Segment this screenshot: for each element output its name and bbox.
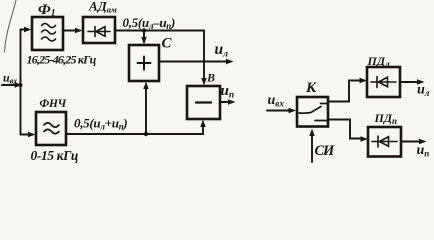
stray scan curve (5, 0, 17, 52)
wire FNCh output bottom bus (66, 133, 203, 135)
svg-text:СИ: СИ (315, 143, 335, 159)
F1 tilde symbols (42, 24, 56, 28)
subtractor B box (187, 86, 220, 119)
filter F1 box (32, 17, 63, 50)
wire u_l output (right diagram) (400, 81, 419, 83)
svg-text:С: С (162, 36, 173, 52)
PD_p diode symbol (372, 141, 397, 143)
FNCh tilde symbols (44, 123, 59, 127)
wire branch up into summer C bottom (145, 87, 147, 134)
svg-text:В: В (206, 71, 215, 85)
amplitude detector AD_am box (83, 17, 115, 43)
PD_l diode symbol (371, 81, 396, 83)
wire SI input arrow (311, 134, 313, 162)
node u_bx input label (right) (268, 93, 285, 109)
svg-text:ФНЧ: ФНЧ (40, 98, 67, 110)
peak detector PD_p box (368, 127, 401, 157)
summer C box (129, 45, 159, 81)
value label FNCh band (31, 148, 78, 163)
wire u_p output (left diagram) (220, 101, 230, 103)
wire K to PD_l (328, 81, 361, 102)
wire vertical branch (21, 30, 27, 135)
wire input arrow (left) (2, 84, 16, 86)
wire AD output to right (115, 30, 204, 32)
K switch symbol (299, 107, 321, 114)
svg-text:0-15 кГц: 0-15 кГц (31, 148, 78, 163)
wire u_p output (right diagram) (401, 141, 421, 143)
wire corner up into subtractor B bottom (202, 125, 204, 134)
commutator K box (297, 97, 328, 127)
plus sign (138, 62, 151, 64)
node junction bottom (144, 132, 148, 136)
value label F1 band (27, 53, 97, 67)
svg-text:16,25-46,25 кГц: 16,25-46,25 кГц (27, 53, 97, 67)
low-pass filter FNCh box (36, 112, 66, 145)
node junction top (142, 28, 146, 32)
node junction u_bx (19, 83, 23, 87)
wire input arrow (right) (267, 110, 290, 112)
wire F1 to AD (63, 30, 77, 32)
label 0,5(ul-up) (123, 15, 176, 31)
wire K to PD_p (328, 120, 362, 139)
wire branch down into summer C (143, 31, 145, 40)
node u_bx input label (left) (3, 71, 17, 86)
minus sign (196, 101, 211, 103)
wire u_l output (left diagram) (159, 61, 228, 63)
wire arrow into F1 (24, 27, 32, 32)
wire into FNCh (21, 134, 30, 136)
peak detector PD_l box (367, 67, 400, 97)
label 0,5(ul+up) (74, 116, 127, 132)
svg-text:К: К (305, 80, 317, 96)
AD diode symbol (88, 31, 110, 33)
wire down to subtractor B (203, 31, 205, 81)
